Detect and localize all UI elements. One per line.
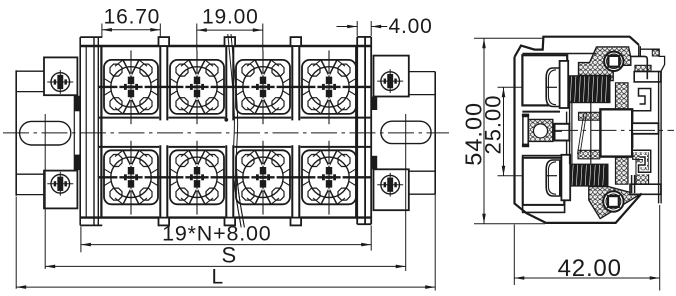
svg-text:42.00: 42.00	[558, 255, 622, 282]
svg-text:19*N+8.00: 19*N+8.00	[162, 222, 271, 246]
svg-text:4.00: 4.00	[389, 15, 433, 38]
svg-text:19.00: 19.00	[202, 5, 259, 28]
svg-text:25.00: 25.00	[480, 94, 505, 154]
svg-text:L: L	[212, 265, 224, 288]
svg-text:S: S	[221, 242, 236, 267]
svg-text:16.70: 16.70	[104, 5, 161, 28]
